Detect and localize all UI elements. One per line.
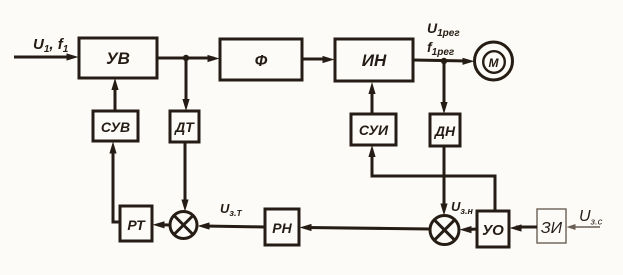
svg-text:РН: РН	[272, 220, 292, 236]
svg-text:ДН: ДН	[434, 123, 456, 139]
svg-text:УО: УО	[482, 222, 504, 239]
svg-text:ДТ: ДТ	[174, 119, 195, 135]
svg-text:РТ: РТ	[127, 217, 146, 233]
svg-text:СУВ: СУВ	[101, 119, 130, 135]
svg-text:Ф: Ф	[255, 53, 268, 70]
svg-text:М: М	[489, 56, 500, 70]
svg-text:СУИ: СУИ	[359, 122, 389, 138]
svg-text:ИН: ИН	[362, 51, 387, 70]
svg-text:УВ: УВ	[106, 49, 130, 68]
svg-text:ЗИ: ЗИ	[541, 220, 563, 237]
